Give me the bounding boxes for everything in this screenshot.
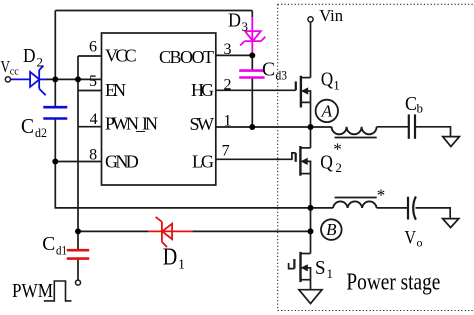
- svg-text:A: A: [321, 101, 333, 120]
- svg-text:EN: EN: [105, 80, 126, 100]
- svg-text:HG: HG: [191, 80, 214, 100]
- svg-text:*: *: [333, 140, 342, 159]
- svg-text:2: 2: [335, 160, 342, 175]
- svg-text:3: 3: [242, 19, 249, 34]
- svg-text:S: S: [315, 257, 326, 279]
- svg-text:2: 2: [224, 77, 232, 94]
- svg-text:1: 1: [333, 78, 340, 93]
- svg-text:B: B: [326, 220, 337, 239]
- svg-text:*: *: [377, 185, 386, 204]
- svg-text:2: 2: [37, 55, 44, 70]
- svg-text:1: 1: [178, 258, 185, 273]
- svg-text:1: 1: [327, 266, 334, 281]
- svg-text:C: C: [21, 114, 34, 138]
- svg-text:CBOOT: CBOOT: [159, 47, 214, 67]
- svg-text:V: V: [405, 227, 417, 248]
- svg-text:SW: SW: [190, 114, 215, 134]
- svg-text:o: o: [417, 236, 423, 250]
- svg-text:4: 4: [90, 111, 98, 128]
- svg-text:PWM: PWM: [12, 280, 53, 302]
- svg-text:cc: cc: [10, 66, 19, 78]
- svg-text:d3: d3: [276, 68, 288, 83]
- svg-text:b: b: [417, 101, 424, 116]
- svg-text:C: C: [262, 59, 275, 81]
- svg-text:C: C: [42, 233, 55, 255]
- svg-text:VCC: VCC: [105, 46, 137, 66]
- svg-text:5: 5: [89, 73, 97, 90]
- svg-text:C: C: [405, 93, 417, 115]
- svg-text:d2: d2: [35, 125, 47, 140]
- svg-text:3: 3: [224, 41, 232, 58]
- svg-text:d1: d1: [56, 243, 67, 258]
- svg-text:Q: Q: [321, 69, 334, 91]
- svg-text:LG: LG: [192, 151, 214, 171]
- svg-text:7: 7: [222, 143, 230, 160]
- svg-text:Vin: Vin: [319, 6, 343, 25]
- svg-text:Q: Q: [320, 152, 333, 174]
- svg-text:Power stage: Power stage: [346, 270, 440, 296]
- svg-text:PWN_IN: PWN_IN: [105, 114, 158, 134]
- svg-text:D: D: [228, 10, 241, 32]
- svg-text:D: D: [163, 245, 178, 271]
- svg-text:8: 8: [89, 146, 97, 163]
- svg-text:1: 1: [224, 112, 232, 129]
- svg-text:D: D: [23, 45, 36, 67]
- svg-text:GND: GND: [105, 151, 139, 171]
- svg-text:6: 6: [89, 39, 97, 56]
